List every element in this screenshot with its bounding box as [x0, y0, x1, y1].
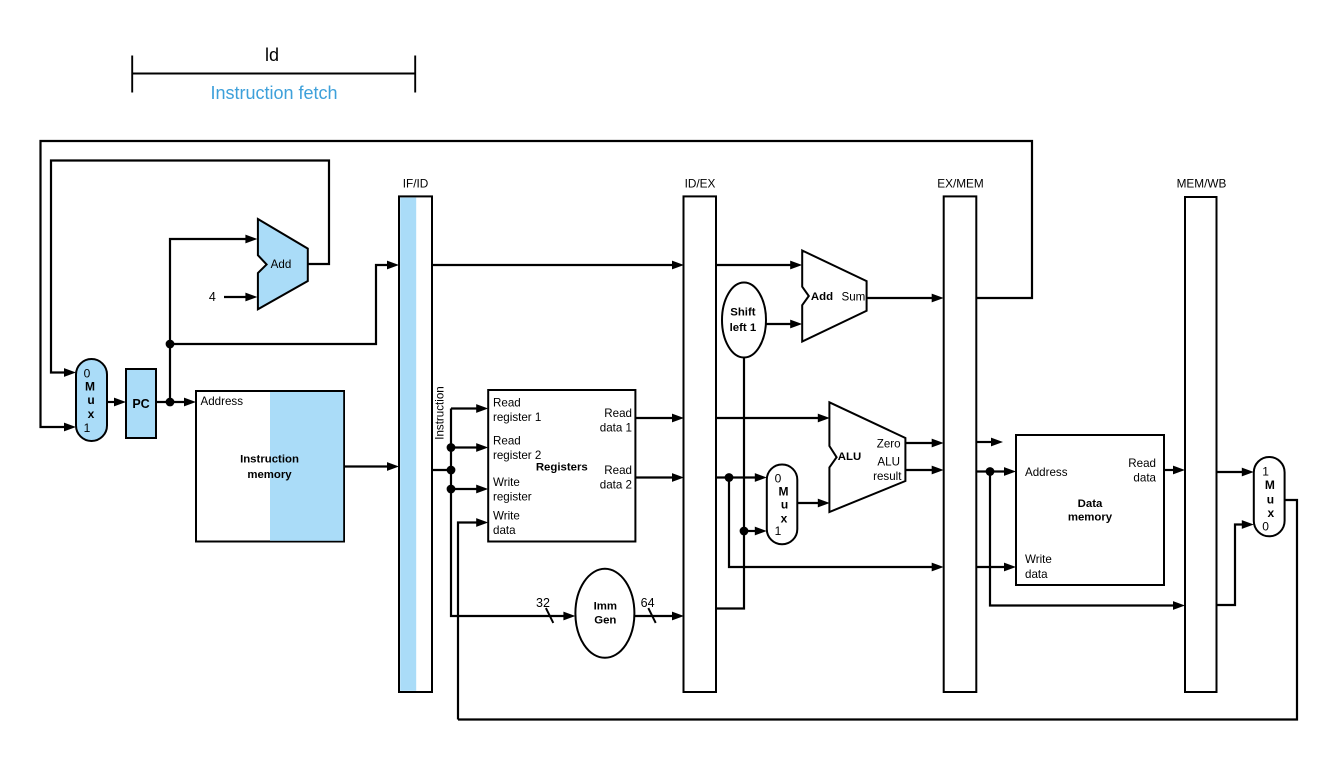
- mux write-back: [1254, 457, 1285, 536]
- wire IF/ID instruction bus: [432, 409, 575, 621]
- instruction memory: [196, 391, 344, 542]
- wire shift left 1 output to branch Add: [766, 320, 802, 329]
- svg-text:Read: Read: [493, 435, 521, 448]
- svg-text:Instruction fetch: Instruction fetch: [210, 83, 337, 103]
- wire branch feedback EX/MEM to PC mux input 1: [41, 141, 1033, 431]
- svg-text:Registers: Registers: [536, 462, 588, 474]
- pipeline register ID/EX: [684, 177, 717, 693]
- svg-text:1: 1: [775, 524, 782, 538]
- junction instruction read register 2: [447, 443, 456, 452]
- wire WB mux output write-back: [458, 500, 1297, 720]
- svg-text:M: M: [1265, 478, 1275, 492]
- wire EX/MEM write data to data memory: [976, 563, 1016, 572]
- svg-text:Address: Address: [1025, 466, 1068, 479]
- ALU: [829, 402, 905, 512]
- svg-text:ALU: ALU: [838, 451, 861, 463]
- svg-text:Read: Read: [493, 397, 521, 410]
- data memory: [1016, 435, 1164, 585]
- registers: [488, 390, 635, 542]
- pipeline register EX/MEM: [937, 177, 984, 693]
- svg-text:data: data: [493, 524, 516, 537]
- wire read data 1 to ID/EX: [635, 414, 684, 423]
- svg-text:0: 0: [1262, 519, 1269, 533]
- svg-text:Gen: Gen: [594, 614, 616, 626]
- svg-text:Add: Add: [811, 291, 833, 303]
- junction immediate to ALU mux: [740, 527, 749, 536]
- svg-text:left 1: left 1: [730, 322, 757, 334]
- wire write-back data to registers write data: [458, 518, 488, 719]
- svg-text:MEM/WB: MEM/WB: [1177, 177, 1227, 191]
- wire PC value to IF/ID: [170, 261, 399, 344]
- svg-text:Data: Data: [1078, 498, 1103, 510]
- svg-text:64: 64: [641, 596, 655, 610]
- svg-text:ld: ld: [265, 45, 279, 65]
- svg-text:x: x: [88, 407, 95, 421]
- svg-text:0: 0: [84, 367, 91, 381]
- svg-text:Instruction: Instruction: [433, 386, 446, 440]
- svg-text:u: u: [781, 498, 788, 512]
- svg-text:data: data: [1133, 472, 1156, 485]
- svg-text:Write: Write: [1025, 553, 1052, 566]
- wire ALU zero to EX/MEM: [905, 439, 944, 448]
- svg-text:register: register: [493, 491, 532, 504]
- junction read data 2: [725, 473, 734, 482]
- svg-text:u: u: [1267, 492, 1274, 506]
- junction instruction main: [447, 466, 456, 475]
- svg-text:result: result: [873, 470, 902, 483]
- svg-text:Address: Address: [201, 395, 244, 408]
- bus slash 32: [546, 608, 553, 623]
- svg-text:Read: Read: [604, 407, 632, 420]
- wire read data 2 to EX/MEM write data: [729, 478, 944, 572]
- wire constant 4 to Add bottom input: [224, 293, 257, 302]
- svg-text:memory: memory: [1068, 512, 1113, 524]
- svg-text:4: 4: [209, 290, 216, 304]
- svg-text:ID/EX: ID/EX: [685, 177, 716, 191]
- junction PC wire to IF/ID: [166, 340, 175, 349]
- register PC: [126, 369, 156, 438]
- svg-text:register 1: register 1: [493, 411, 541, 424]
- wire ID/EX read data 2 to ALU mux input 0: [716, 473, 767, 482]
- pipeline register MEM/WB: [1177, 177, 1227, 693]
- svg-text:Read: Read: [1128, 457, 1156, 470]
- wire branch Add sum to EX/MEM: [867, 294, 944, 303]
- svg-text:0: 0: [775, 471, 782, 485]
- svg-text:Write: Write: [493, 476, 520, 489]
- imm gen: [575, 569, 634, 658]
- stage bracket ruler: [132, 56, 415, 93]
- svg-text:M: M: [779, 485, 789, 499]
- wire instruction to read register 2: [451, 443, 488, 452]
- wire PC output to instruction memory address: [156, 398, 196, 407]
- wire ALU result bypass to MEM/WB: [990, 472, 1185, 610]
- junction PC output: [166, 398, 175, 407]
- svg-text:32: 32: [536, 596, 550, 610]
- junction ALU result: [986, 467, 995, 476]
- svg-text:data: data: [1025, 568, 1048, 581]
- svg-text:Shift: Shift: [730, 307, 756, 319]
- svg-text:ALU: ALU: [877, 456, 900, 469]
- svg-text:data 2: data 2: [600, 479, 632, 492]
- wire MEM/WB read data to WB mux input 1: [1217, 468, 1254, 477]
- wire ALU mux output to ALU: [797, 499, 830, 508]
- svg-text:IF/ID: IF/ID: [403, 177, 429, 191]
- wire data memory read data to MEM/WB: [1164, 466, 1185, 475]
- svg-text:Zero: Zero: [877, 438, 901, 451]
- adder Add branch target: [802, 251, 866, 342]
- svg-text:u: u: [87, 393, 94, 407]
- wire instruction to read register 1: [451, 404, 488, 413]
- svg-text:Instruction: Instruction: [240, 454, 299, 466]
- wire ID/EX immediate to shift left 1: [716, 357, 744, 609]
- svg-text:PC: PC: [132, 397, 149, 411]
- shift left 1: [722, 283, 766, 358]
- pipeline register IF/ID: [399, 177, 432, 693]
- svg-text:x: x: [1268, 506, 1275, 520]
- svg-text:1: 1: [84, 421, 91, 435]
- wire read data 2 to ID/EX: [635, 473, 684, 482]
- wire ALU result to EX/MEM: [905, 466, 944, 475]
- wire PC+4 loop Add output to PC mux input 0: [51, 161, 329, 377]
- svg-text:Add: Add: [271, 258, 292, 271]
- junction instruction write register: [447, 485, 456, 494]
- svg-text:data 1: data 1: [600, 422, 632, 435]
- wire immediate to ALU mux input 1: [744, 527, 767, 536]
- svg-text:x: x: [781, 512, 788, 526]
- wire MEM/WB ALU result to WB mux input 0: [1217, 520, 1254, 605]
- svg-text:EX/MEM: EX/MEM: [937, 177, 984, 191]
- mux PC source: [76, 359, 107, 441]
- wire IF/ID PC value to ID/EX: [432, 261, 684, 270]
- svg-text:Imm: Imm: [594, 601, 617, 613]
- svg-text:1: 1: [1262, 465, 1269, 479]
- svg-text:memory: memory: [247, 469, 292, 481]
- wire imm gen output to ID/EX: [634, 612, 684, 621]
- bus slash 64: [648, 608, 655, 623]
- wire PC output up to Add top input: [170, 235, 257, 402]
- wire PC mux output to PC: [107, 398, 126, 407]
- wire ID/EX read data 1 to ALU: [716, 414, 830, 423]
- svg-text:M: M: [85, 380, 95, 394]
- wire ID/EX PC value to branch Add: [716, 261, 802, 270]
- svg-text:register 2: register 2: [493, 449, 541, 462]
- svg-text:Read: Read: [604, 464, 632, 477]
- wire instruction to write register: [451, 485, 488, 494]
- wire instruction memory output to IF/ID: [344, 462, 399, 471]
- svg-text:Write: Write: [493, 510, 520, 523]
- mux ALU operand: [767, 465, 798, 545]
- adder Add PC+4: [258, 219, 308, 309]
- svg-text:Sum: Sum: [841, 291, 865, 304]
- wire EX/MEM ALU result to data memory address: [976, 467, 1016, 476]
- wire EX/MEM zero stub: [976, 438, 1003, 447]
